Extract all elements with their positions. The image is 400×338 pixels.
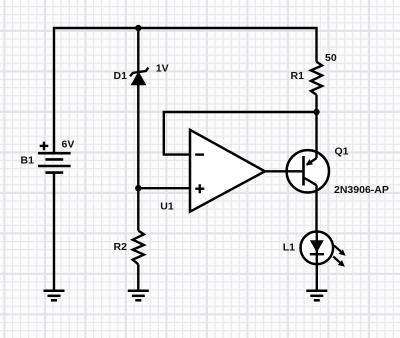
- svg-text:Q1: Q1: [335, 146, 349, 158]
- wire R1 bottom through node to Q1 emitter: [315, 95, 317, 158]
- op-amp U1 body: [190, 130, 265, 212]
- ground under battery: [44, 291, 65, 301]
- op-amp plus sign: [195, 184, 204, 193]
- resistor R2: [133, 231, 144, 265]
- Q1 base bar: [302, 156, 305, 186]
- svg-text:1V: 1V: [156, 62, 169, 74]
- svg-text:U1: U1: [160, 201, 174, 213]
- zener diode D1: [130, 68, 148, 85]
- svg-text:B1: B1: [21, 154, 35, 166]
- svg-text:D1: D1: [114, 70, 128, 82]
- wire top rail B1 to R1: [54, 28, 317, 153]
- svg-text:6V: 6V: [62, 138, 75, 150]
- svg-text:50: 50: [325, 52, 337, 64]
- wire node to op-amp plus input: [138, 187, 190, 189]
- Q1 collector: [305, 178, 317, 185]
- L1 diode triangle: [310, 240, 324, 252]
- svg-text:R2: R2: [114, 241, 128, 253]
- wire D1 anode down to node and R2: [137, 84, 139, 231]
- wire op-amp output to Q1 base: [265, 170, 304, 172]
- Q1 emitter with arrow: [307, 158, 317, 165]
- node junction R1 / feedback: [313, 109, 319, 115]
- L1 wire through symbol: [316, 232, 318, 264]
- wire Q1 collector to L1: [315, 185, 317, 232]
- ground under R2: [128, 291, 149, 301]
- node junction D1 / R2 / op-amp plus: [135, 185, 141, 191]
- L1 light arrow 2: [333, 257, 345, 267]
- transistor Q1 body: [287, 150, 329, 192]
- svg-text:R1: R1: [291, 70, 305, 82]
- L1 light arrow 1: [334, 245, 346, 256]
- LED L1 body: [301, 232, 334, 265]
- wire battery negative to ground: [53, 173, 55, 291]
- wire D1 branch from top rail: [137, 28, 139, 73]
- node junction top rail / D1: [135, 25, 141, 31]
- resistor R1: [311, 62, 322, 95]
- wire feedback from R1 bottom node to op-amp minus input: [164, 112, 317, 155]
- svg-text:2N3906-AP: 2N3906-AP: [334, 184, 389, 196]
- op-amp minus sign: [195, 153, 204, 155]
- battery plus sign: [40, 142, 49, 151]
- battery B1: [38, 153, 71, 172]
- svg-text:L1: L1: [283, 242, 295, 254]
- wire L1 cathode to ground: [316, 264, 318, 291]
- ground under L1: [306, 291, 327, 301]
- wire R2 bottom to ground: [137, 264, 139, 290]
- L1 cathode bar: [310, 253, 324, 255]
